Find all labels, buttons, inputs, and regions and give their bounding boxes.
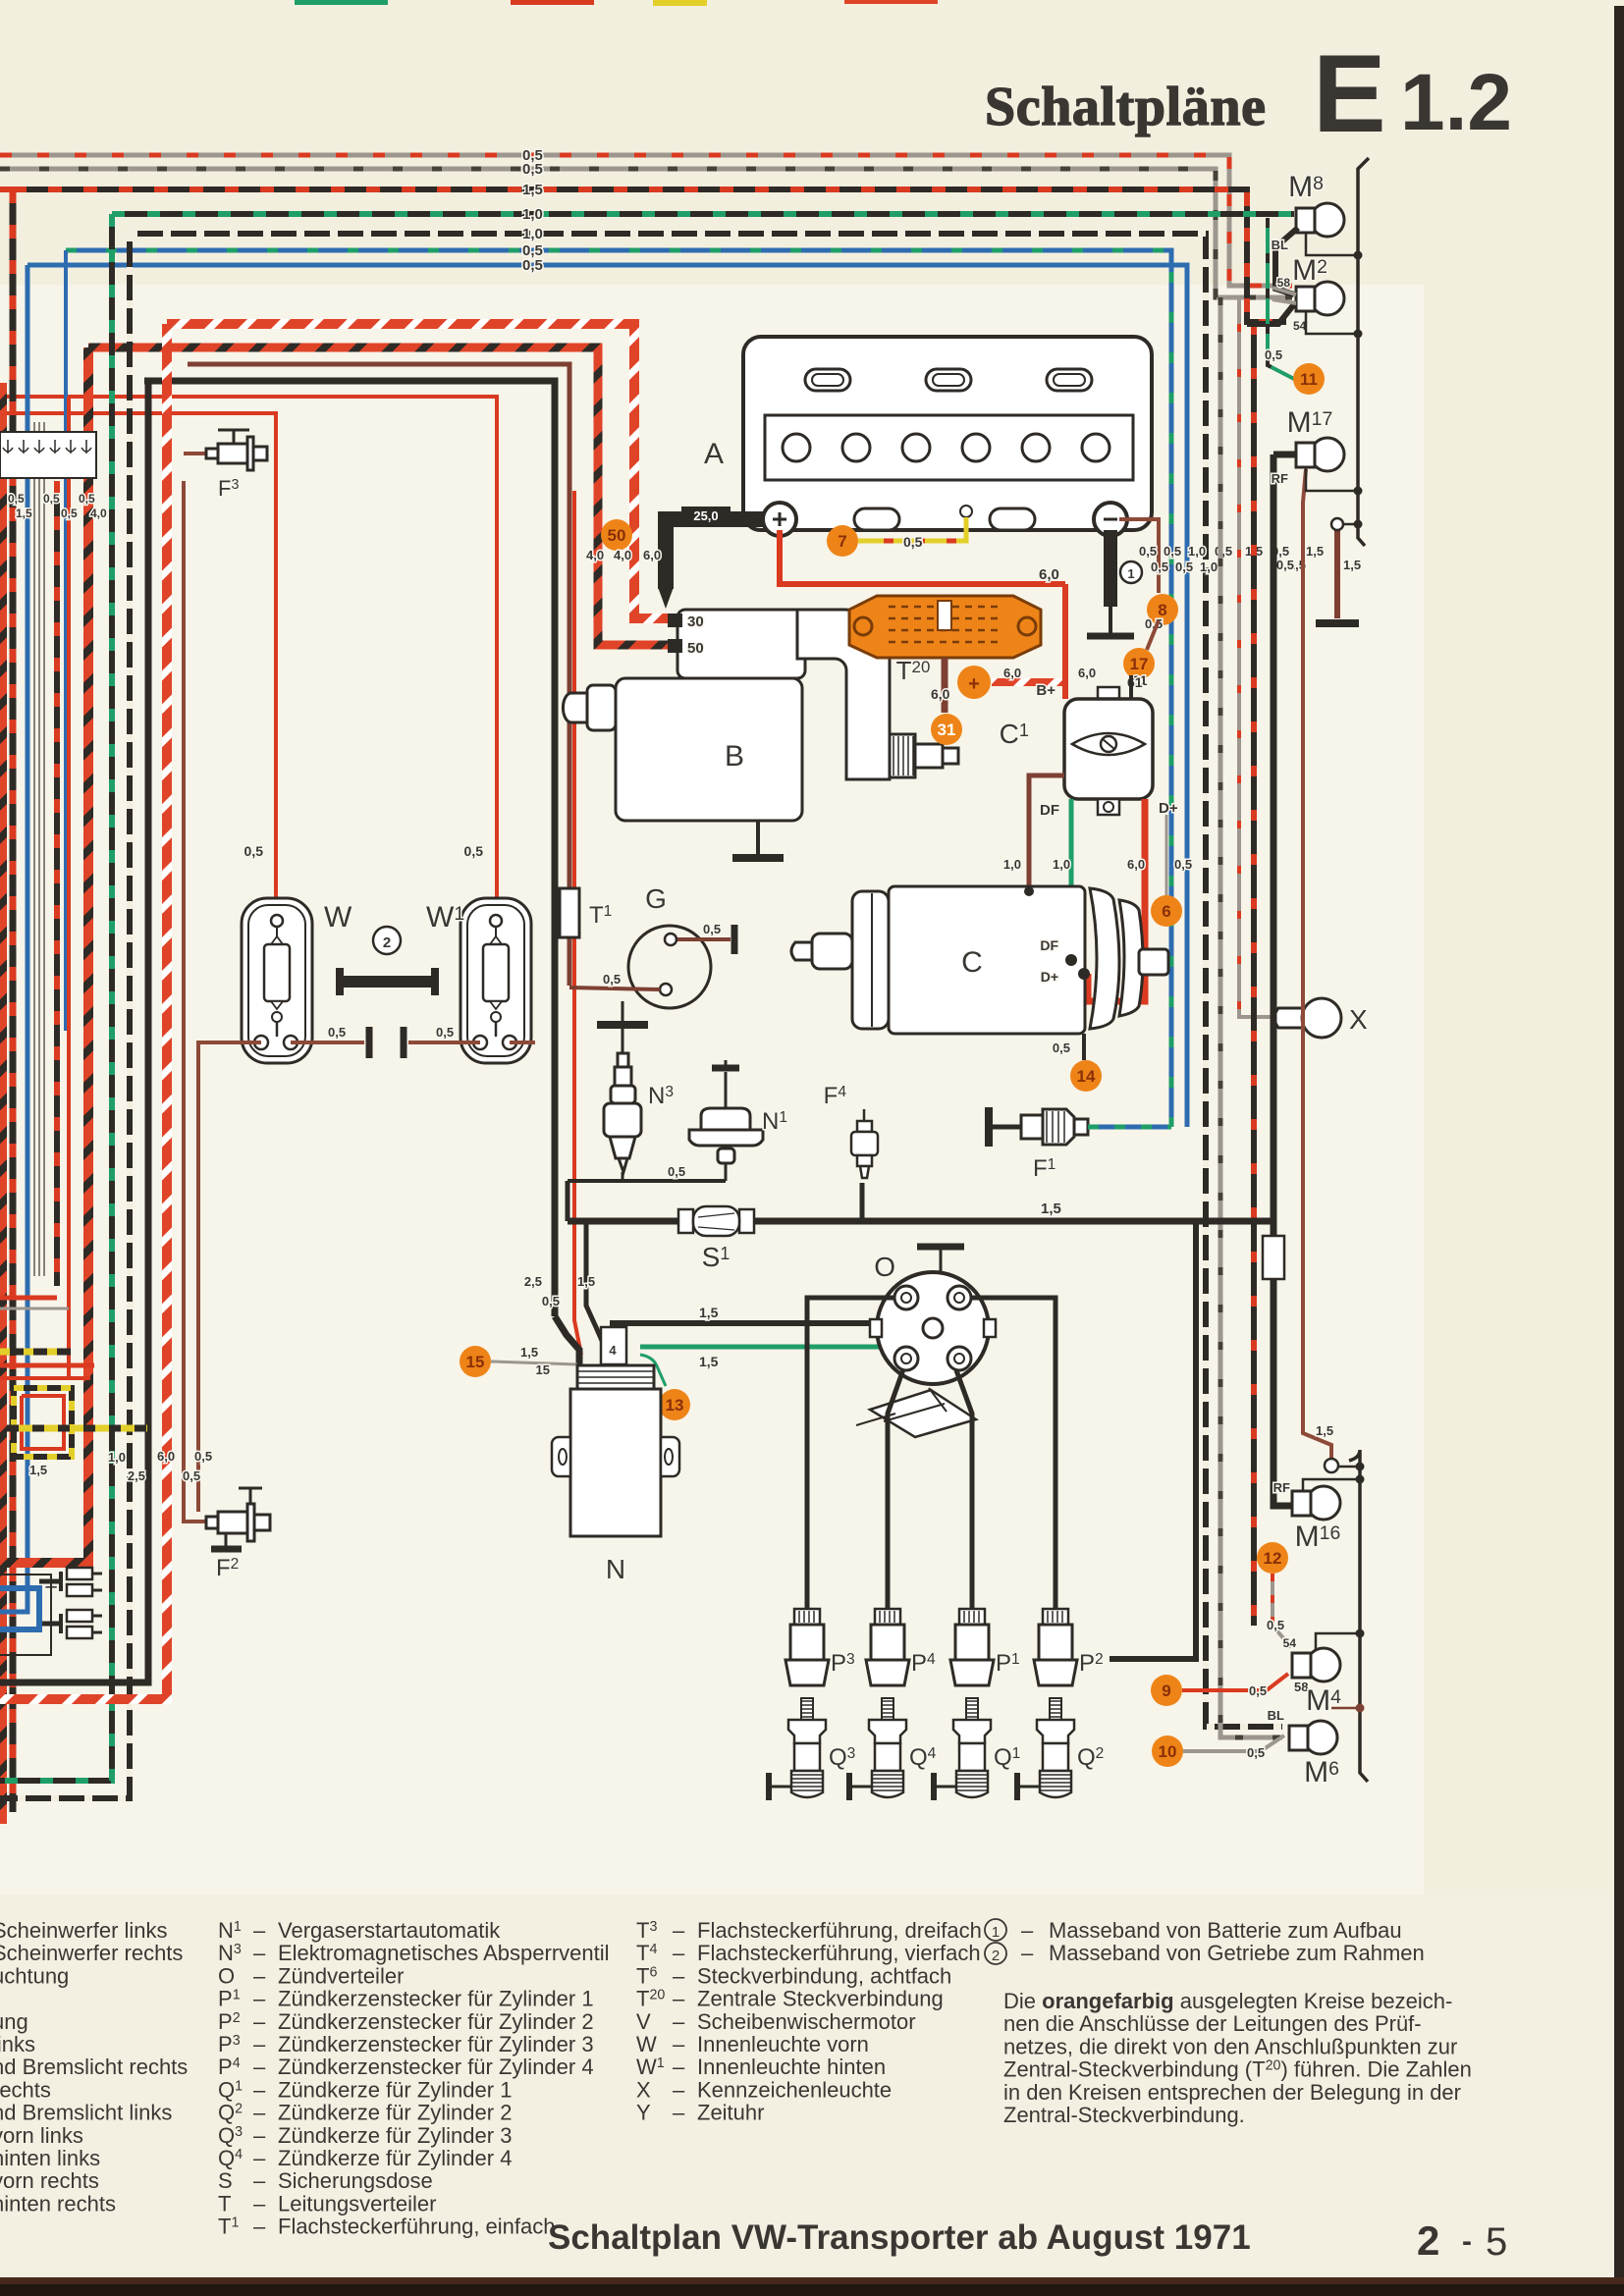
svg-text:0,5: 0,5 — [1265, 347, 1282, 362]
svg-text:0,5: 0,5 — [1276, 558, 1294, 572]
svg-text:–: – — [673, 1918, 685, 1943]
svg-text:Masseband von Getriebe zum Rah: Masseband von Getriebe zum Rahmen — [1049, 1941, 1425, 1965]
svg-text:–: – — [673, 1963, 685, 1988]
svg-text:T: T — [218, 2191, 231, 2216]
svg-text:1,5: 1,5 — [1343, 558, 1361, 572]
svg-text:0,5: 0,5 — [8, 492, 25, 506]
svg-text:0,5: 0,5 — [1151, 560, 1168, 574]
svg-text:0,5: 0,5 — [1247, 1745, 1265, 1760]
svg-text:Flachsteckerführung, dreifach: Flachsteckerführung, dreifach — [697, 1918, 982, 1943]
svg-text:1: 1 — [1127, 566, 1134, 581]
svg-text:Vergaserstartautomatik: Vergaserstartautomatik — [278, 1918, 501, 1943]
svg-text:V: V — [636, 2009, 651, 2034]
svg-text:X: X — [1349, 1004, 1368, 1035]
svg-text:G: G — [645, 883, 667, 914]
svg-text:0,5: 0,5 — [603, 972, 621, 987]
svg-text:Schaltpläne: Schaltpläne — [985, 77, 1266, 137]
svg-text:Masseband von Batterie zum Auf: Masseband von Batterie zum Aufbau — [1049, 1918, 1402, 1943]
svg-text:W: W — [636, 2032, 657, 2056]
svg-text:6: 6 — [1162, 902, 1170, 921]
svg-text:0,5: 0,5 — [464, 843, 484, 859]
svg-text:Zündkerzenstecker für Zylinder: Zündkerzenstecker für Zylinder 2 — [278, 2009, 594, 2034]
svg-text:nen die Anschlüsse der Lei: nen die Anschlüsse der Leitungen des Prü… — [1003, 2011, 1422, 2036]
svg-text:ung: ung — [0, 2009, 28, 2034]
svg-text:–: – — [253, 2123, 266, 2148]
svg-text:6,0: 6,0 — [1003, 666, 1021, 680]
svg-text:15: 15 — [536, 1362, 550, 1377]
svg-text:6,0: 6,0 — [931, 686, 950, 702]
svg-text:DF: DF — [1040, 937, 1058, 953]
svg-text:1,5: 1,5 — [520, 1345, 538, 1360]
svg-text:Zentrale Steckverbindung: Zentrale Steckverbindung — [697, 1987, 944, 2011]
svg-text:Zündkerzenstecker für Zylinder: Zündkerzenstecker für Zylinder 4 — [278, 2055, 594, 2079]
svg-text:O: O — [218, 1963, 235, 1988]
svg-text:0,5: 0,5 — [1139, 544, 1157, 559]
svg-text:Innenleuchte hinten: Innenleuchte hinten — [697, 2055, 886, 2079]
svg-text:50: 50 — [687, 640, 704, 657]
svg-text:6,0: 6,0 — [157, 1449, 175, 1464]
svg-text:1,5: 1,5 — [29, 1463, 47, 1477]
svg-text:Leitungsverteiler: Leitungsverteiler — [278, 2191, 436, 2216]
svg-text:0,5: 0,5 — [244, 843, 264, 859]
svg-text:Innenleuchte vorn: Innenleuchte vorn — [697, 2032, 869, 2056]
svg-text:Elektromagnetisches Absperrven: Elektromagnetisches Absperrventil — [278, 1941, 610, 1965]
svg-text:S: S — [218, 2168, 233, 2193]
svg-text:-: - — [1462, 2225, 1472, 2258]
svg-text:Flachsteckerführung, einfach: Flachsteckerführung, einfach — [278, 2215, 556, 2239]
svg-text:RF: RF — [1273, 1480, 1290, 1495]
svg-text:–: – — [673, 1987, 685, 2011]
svg-text:1,0: 1,0 — [1200, 560, 1218, 574]
svg-text:1,5: 1,5 — [699, 1354, 719, 1369]
svg-text:4,0: 4,0 — [614, 548, 631, 562]
svg-text:Scheibenwischermotor: Scheibenwischermotor — [697, 2009, 916, 2034]
svg-text:54: 54 — [1293, 319, 1307, 333]
svg-text:DF: DF — [1040, 802, 1059, 819]
svg-text:0,5: 0,5 — [542, 1294, 560, 1308]
svg-text:B+: B+ — [1036, 682, 1056, 699]
svg-text:Kennzeichenleuchte: Kennzeichenleuchte — [697, 2077, 892, 2102]
svg-text:0,5: 0,5 — [703, 922, 721, 936]
svg-text:rechts: rechts — [0, 2077, 51, 2102]
svg-text:1,0: 1,0 — [1053, 857, 1070, 872]
svg-text:Scheinwerfer links: Scheinwerfer links — [0, 1918, 168, 1943]
svg-text:0,5: 0,5 — [668, 1164, 685, 1179]
svg-text:N: N — [606, 1554, 625, 1584]
svg-text:X: X — [636, 2077, 651, 2102]
svg-text:0,5: 0,5 — [328, 1025, 346, 1040]
svg-text:BL: BL — [1268, 1708, 1284, 1723]
svg-text:vorn rechts: vorn rechts — [0, 2168, 99, 2193]
svg-text:1,5: 1,5 — [699, 1305, 719, 1320]
svg-text:13: 13 — [666, 1396, 684, 1415]
svg-text:E: E — [1313, 32, 1386, 155]
svg-text:1,5: 1,5 — [16, 507, 32, 520]
svg-text:1,5: 1,5 — [1316, 1423, 1333, 1438]
svg-text:1,5: 1,5 — [522, 182, 543, 198]
svg-text:30: 30 — [687, 614, 704, 630]
svg-text:Scheinwerfer rechts: Scheinwerfer rechts — [0, 1941, 183, 1965]
svg-text:12: 12 — [1264, 1549, 1282, 1568]
svg-text:Zündkerze für Zylinder 4: Zündkerze für Zylinder 4 — [278, 2146, 512, 2170]
svg-text:4,0: 4,0 — [586, 548, 604, 562]
svg-text:0,5: 0,5 — [61, 507, 78, 520]
svg-text:–: – — [1021, 1941, 1034, 1965]
svg-text:–: – — [673, 2055, 685, 2079]
svg-text:1: 1 — [992, 1924, 1000, 1941]
svg-text:5: 5 — [1486, 2220, 1507, 2264]
svg-text:0,5: 0,5 — [1164, 544, 1181, 559]
svg-text:0,5: 0,5 — [522, 161, 543, 178]
svg-text:58: 58 — [1277, 276, 1291, 290]
svg-text:A: A — [704, 438, 724, 470]
svg-text:0,5: 0,5 — [194, 1449, 212, 1464]
svg-text:BL: BL — [1272, 238, 1288, 252]
svg-text:Schaltplan VW-Transporter ab A: Schaltplan VW-Transporter ab August 1971 — [548, 2218, 1251, 2257]
svg-text:4: 4 — [609, 1343, 617, 1358]
svg-text:0,5: 0,5 — [183, 1468, 200, 1483]
svg-text:+: + — [968, 673, 980, 695]
svg-text:0,5: 0,5 — [1174, 857, 1192, 872]
svg-text:Zündkerze für Zylinder 3: Zündkerze für Zylinder 3 — [278, 2123, 512, 2148]
svg-text:6,0: 6,0 — [1039, 566, 1059, 583]
svg-text:0,5: 0,5 — [1175, 560, 1193, 574]
svg-text:links: links — [0, 2032, 35, 2056]
svg-text:Die orangefarbig ausgelegten K: Die orangefarbig ausgelegten Kreise beze… — [1003, 1989, 1452, 2013]
svg-text:–: – — [253, 1963, 266, 1988]
svg-text:O: O — [874, 1252, 895, 1282]
svg-text:15: 15 — [466, 1353, 485, 1371]
svg-text:–: – — [253, 1941, 266, 1965]
svg-text:2: 2 — [383, 934, 391, 951]
svg-text:D+: D+ — [1159, 800, 1178, 817]
svg-text:D+: D+ — [1041, 969, 1058, 985]
svg-text:uchtung: uchtung — [0, 1963, 69, 1988]
svg-text:hinten links: hinten links — [0, 2146, 100, 2170]
svg-text:–: – — [673, 2032, 685, 2056]
svg-text:17: 17 — [1130, 655, 1149, 673]
svg-text:0,5: 0,5 — [79, 492, 95, 506]
svg-text:nd Bremslicht rechts: nd Bremslicht rechts — [0, 2055, 188, 2079]
svg-text:netzes, die direkt von den Ans: netzes, die direkt von den Anschlußpunkt… — [1003, 2034, 1457, 2058]
svg-text:Sicherungsdose: Sicherungsdose — [278, 2168, 433, 2193]
svg-text:1,0: 1,0 — [522, 226, 543, 242]
svg-text:10: 10 — [1159, 1742, 1177, 1761]
svg-text:Y: Y — [636, 2101, 651, 2125]
svg-text:0,5: 0,5 — [1215, 544, 1232, 559]
svg-text:–: – — [253, 2215, 266, 2239]
svg-text:–: – — [253, 2101, 266, 2125]
svg-text:–: – — [253, 2055, 266, 2079]
svg-text:–: – — [253, 2077, 266, 2102]
svg-text:0,5: 0,5 — [1267, 1618, 1284, 1632]
svg-text:1.2: 1.2 — [1400, 58, 1512, 147]
svg-text:B: B — [725, 740, 744, 773]
svg-text:–: – — [253, 2009, 266, 2034]
svg-text:2,5: 2,5 — [128, 1468, 145, 1483]
svg-text:7: 7 — [838, 532, 846, 551]
svg-text:1,0: 1,0 — [108, 1450, 126, 1465]
svg-text:–: – — [253, 2168, 266, 2193]
svg-text:31: 31 — [938, 721, 956, 739]
svg-text:6,0: 6,0 — [643, 548, 661, 562]
svg-text:1,0: 1,0 — [1003, 857, 1021, 872]
svg-text:1,5: 1,5 — [577, 1274, 595, 1289]
svg-text:–: – — [253, 2032, 266, 2056]
svg-text:–: – — [253, 2191, 266, 2216]
svg-text:2,5: 2,5 — [524, 1274, 542, 1289]
svg-text:Zündkerze für Zylinder 2: Zündkerze für Zylinder 2 — [278, 2101, 512, 2125]
svg-text:–: – — [253, 1918, 266, 1943]
svg-text:hinten rechts: hinten rechts — [0, 2191, 116, 2216]
svg-text:0,5: 0,5 — [436, 1025, 454, 1040]
svg-text:–: – — [253, 1987, 266, 2011]
svg-text:Zündkerzenstecker für Zylinder: Zündkerzenstecker für Zylinder 1 — [278, 1987, 594, 2011]
svg-text:1,0: 1,0 — [522, 206, 543, 223]
svg-text:54: 54 — [1283, 1636, 1297, 1650]
svg-text:0,5: 0,5 — [522, 257, 543, 274]
svg-text:RF: RF — [1272, 471, 1288, 486]
svg-text:0,5: 0,5 — [903, 534, 923, 550]
svg-text:6,0: 6,0 — [1078, 666, 1096, 680]
svg-text:vorn links: vorn links — [0, 2123, 83, 2148]
svg-text:4,0: 4,0 — [90, 507, 107, 520]
svg-text:9: 9 — [1162, 1682, 1170, 1700]
svg-text:1,5: 1,5 — [1041, 1201, 1061, 1217]
svg-text:14: 14 — [1077, 1067, 1096, 1086]
svg-text:1,5: 1,5 — [1306, 544, 1324, 559]
svg-text:–: – — [1021, 1918, 1034, 1943]
svg-text:2: 2 — [992, 1948, 1000, 1964]
svg-text:–: – — [673, 2101, 685, 2125]
svg-text:in den Kreisen entsprechen der: in den Kreisen entsprechen der Belegung … — [1003, 2080, 1461, 2105]
svg-text:C: C — [961, 946, 983, 979]
svg-text:Zündverteiler: Zündverteiler — [278, 1963, 404, 1988]
svg-text:0,5: 0,5 — [1249, 1683, 1267, 1698]
svg-text:–: – — [253, 2146, 266, 2170]
svg-text:Steckverbindung, achtfach: Steckverbindung, achtfach — [697, 1963, 951, 1988]
svg-text:0,5: 0,5 — [43, 492, 60, 506]
svg-text:–: – — [673, 2077, 685, 2102]
svg-text:Zündkerzenstecker für Zylinder: Zündkerzenstecker für Zylinder 3 — [278, 2032, 594, 2056]
svg-text:nd Bremslicht links: nd Bremslicht links — [0, 2101, 172, 2125]
svg-text:1,0: 1,0 — [1188, 544, 1206, 559]
svg-text:–: – — [673, 1941, 685, 1965]
svg-text:2: 2 — [1417, 2217, 1439, 2264]
svg-text:Zentral-Steckverbindung (T20): Zentral-Steckverbindung (T20) führen. Di… — [1003, 2057, 1472, 2082]
svg-text:Zeituhr: Zeituhr — [697, 2101, 764, 2125]
svg-text:W: W — [324, 901, 352, 934]
svg-text:6,0: 6,0 — [1127, 857, 1145, 872]
svg-text:25,0: 25,0 — [693, 508, 718, 523]
svg-text:0,5: 0,5 — [1053, 1041, 1070, 1055]
svg-text:Zündkerze für Zylinder 1: Zündkerze für Zylinder 1 — [278, 2077, 512, 2102]
svg-text:Flachsteckerführung, vierfach: Flachsteckerführung, vierfach — [697, 1941, 981, 1965]
svg-text:–: – — [673, 2009, 685, 2034]
svg-text:50: 50 — [608, 526, 626, 545]
svg-text:11: 11 — [1300, 370, 1318, 389]
svg-text:Zentral-Steckverbindung.: Zentral-Steckverbindung. — [1003, 2103, 1245, 2127]
